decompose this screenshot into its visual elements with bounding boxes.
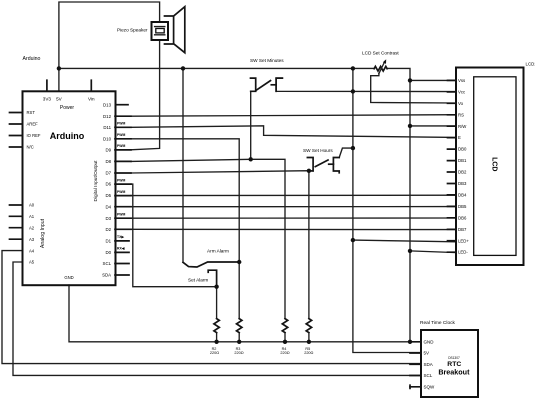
svg-text:D13: D13 <box>103 102 112 107</box>
svg-text:3V3: 3V3 <box>43 96 52 101</box>
svg-text:DB3: DB3 <box>458 181 467 186</box>
svg-text:R2: R2 <box>212 347 217 351</box>
svg-text:LCD1: LCD1 <box>526 61 535 66</box>
svg-text:5V: 5V <box>424 351 430 356</box>
svg-text:RX◀: RX◀ <box>117 247 125 251</box>
svg-text:Digital Input/Output: Digital Input/Output <box>93 160 99 202</box>
svg-text:N/C: N/C <box>27 145 34 150</box>
svg-text:TX▶: TX▶ <box>117 235 124 239</box>
svg-text:D10: D10 <box>103 136 112 141</box>
svg-text:Power: Power <box>60 105 75 111</box>
svg-text:D0: D0 <box>105 250 111 255</box>
svg-text:Breakout: Breakout <box>438 367 470 376</box>
svg-text:D4: D4 <box>105 204 111 209</box>
svg-text:GND: GND <box>64 275 73 280</box>
svg-text:A5: A5 <box>29 260 35 265</box>
svg-text:Arduino: Arduino <box>50 131 85 141</box>
svg-text:D9: D9 <box>105 148 111 153</box>
svg-text:DB6: DB6 <box>458 215 467 220</box>
svg-text:RS: RS <box>458 112 464 117</box>
svg-text:220Ω: 220Ω <box>210 351 219 355</box>
svg-text:D3: D3 <box>105 216 111 221</box>
svg-text:Arduino: Arduino <box>23 56 41 62</box>
svg-text:Arm Alarm: Arm Alarm <box>207 249 229 254</box>
svg-text:220Ω: 220Ω <box>234 351 243 355</box>
svg-text:DB1: DB1 <box>458 158 467 163</box>
svg-text:AREF: AREF <box>27 122 39 127</box>
svg-text:Vin: Vin <box>88 96 95 101</box>
svg-text:DB5: DB5 <box>458 204 467 209</box>
svg-text:A3: A3 <box>29 237 35 242</box>
svg-text:DB2: DB2 <box>458 170 467 175</box>
svg-text:GND: GND <box>424 339 435 344</box>
svg-text:220Ω: 220Ω <box>280 351 289 355</box>
svg-text:D8: D8 <box>105 159 111 164</box>
svg-text:PWM: PWM <box>117 144 125 148</box>
svg-text:LCD Set Contrast: LCD Set Contrast <box>362 50 399 55</box>
svg-text:D7: D7 <box>105 171 111 176</box>
svg-text:DB0: DB0 <box>458 147 467 152</box>
svg-text:D6: D6 <box>105 182 111 187</box>
svg-text:R4: R4 <box>282 347 287 351</box>
svg-text:RST: RST <box>27 110 36 115</box>
svg-text:A0: A0 <box>29 203 35 208</box>
svg-text:SDA: SDA <box>424 362 433 367</box>
svg-text:DS1307: DS1307 <box>448 356 460 360</box>
svg-text:D2: D2 <box>105 227 111 232</box>
svg-text:PWM: PWM <box>117 213 125 217</box>
svg-text:D11: D11 <box>103 125 111 130</box>
svg-text:A1: A1 <box>29 214 35 219</box>
svg-text:IO REF: IO REF <box>27 133 41 138</box>
svg-text:Piezo Speaker: Piezo Speaker <box>117 28 148 33</box>
svg-text:Set Alarm: Set Alarm <box>188 278 208 283</box>
svg-text:Analog Input: Analog Input <box>40 218 46 248</box>
svg-text:R5: R5 <box>305 347 310 351</box>
svg-text:A4: A4 <box>29 248 35 253</box>
svg-text:SQW: SQW <box>424 384 436 389</box>
svg-text:LED-: LED- <box>458 250 468 255</box>
svg-text:5V: 5V <box>56 96 63 101</box>
svg-text:SDA: SDA <box>102 273 111 278</box>
svg-text:LED+: LED+ <box>458 238 469 243</box>
svg-text:R3: R3 <box>236 347 241 351</box>
svg-text:Vo: Vo <box>458 101 464 106</box>
svg-text:LCD: LCD <box>491 157 498 171</box>
svg-text:SW Set Minutes: SW Set Minutes <box>250 58 284 63</box>
svg-text:PWM: PWM <box>117 178 125 182</box>
svg-text:SCL: SCL <box>424 373 433 378</box>
svg-text:D1: D1 <box>105 239 111 244</box>
svg-text:A2: A2 <box>29 225 35 230</box>
svg-text:E: E <box>458 135 461 140</box>
svg-text:R/W: R/W <box>458 124 467 129</box>
svg-text:Vcc: Vcc <box>458 89 466 94</box>
svg-text:DB4: DB4 <box>458 193 467 198</box>
svg-text:DB7: DB7 <box>458 227 467 232</box>
svg-text:PWM: PWM <box>117 133 125 137</box>
svg-text:PWM: PWM <box>117 190 125 194</box>
svg-text:SCL: SCL <box>103 261 112 266</box>
svg-text:SW Set Hours: SW Set Hours <box>303 148 333 153</box>
svg-text:PWM: PWM <box>117 122 125 126</box>
svg-text:D12: D12 <box>103 114 112 119</box>
svg-text:220Ω: 220Ω <box>304 351 313 355</box>
svg-text:Vss: Vss <box>458 78 465 83</box>
svg-text:D5: D5 <box>105 193 111 198</box>
svg-text:Real Time Clock: Real Time Clock <box>420 320 456 326</box>
